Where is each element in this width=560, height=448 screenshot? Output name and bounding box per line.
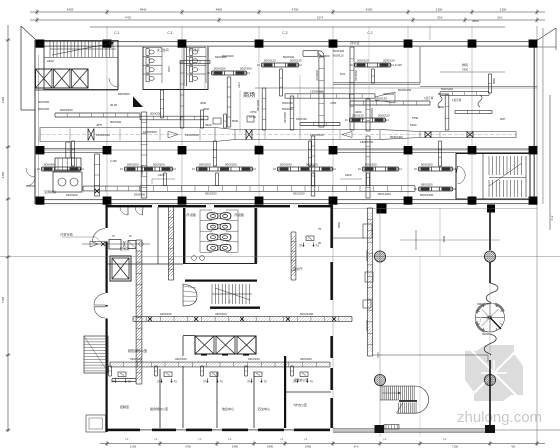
door black triangle: [133, 97, 143, 108]
svg-text:C-1: C-1: [114, 31, 119, 35]
lift lobby walls: [182, 336, 184, 356]
svg-text:4+0: 4+0: [354, 445, 359, 448]
upper taper duct: [375, 92, 395, 103]
riser duct x447: [444, 95, 446, 130]
main supply trunk wide section: [40, 128, 516, 142]
svg-text:500X200: 500X200: [282, 107, 293, 111]
mid horizontal wall right rooms: [285, 391, 331, 393]
hall grid line x380: [379, 208, 381, 437]
svg-text:4*02: 4*02: [125, 16, 132, 20]
branch risers above trunk: [199, 110, 201, 128]
svg-text:2150: 2150: [500, 8, 507, 12]
svg-text:70: 70: [264, 380, 268, 384]
svg-text:21K: 21K: [437, 16, 442, 20]
svg-text:(节点图): (节点图): [234, 213, 244, 217]
svg-text:320X160: 320X160: [175, 357, 187, 361]
svg-text:500X1200: 500X1200: [300, 312, 314, 316]
right grid line C-2: [549, 95, 551, 230]
lift lobby lower: [195, 336, 214, 354]
svg-text:500X200: 500X200: [421, 162, 433, 166]
riser x292: [289, 96, 291, 130]
pump cluster top-left of lower block: [82, 243, 150, 245]
machine room wall: [117, 40, 119, 90]
stair bottom-mid lower flight: [398, 403, 400, 414]
svg-text:500X200: 500X200: [214, 66, 226, 70]
break squiggle below spiral: [482, 334, 496, 355]
svg-text:500X200: 500X200: [127, 162, 139, 166]
svg-text:(-1: (-1: [125, 437, 129, 441]
svg-text:560X250: 560X250: [293, 192, 305, 196]
svg-text:600X400: 600X400: [333, 49, 345, 53]
svg-text:3750: 3750: [237, 82, 241, 88]
diffuser cluster E: [419, 166, 452, 168]
svg-text:520X200: 520X200: [130, 357, 142, 361]
hall connect line right: [373, 354, 488, 356]
svg-text:5000: 5000: [442, 236, 446, 243]
bottom dimension line: [100, 443, 545, 445]
svg-text:2500: 2500: [492, 78, 496, 84]
riser duct lower x293: [290, 232, 292, 280]
svg-text:C-1: C-1: [167, 31, 172, 35]
svg-text:600/1500: 600/1500: [60, 108, 73, 112]
svg-text:200X120: 200X120: [283, 112, 287, 123]
riser x262 from WC: [261, 88, 263, 130]
svg-text:500X200: 500X200: [153, 162, 165, 166]
svg-text:5000X400: 5000X400: [390, 135, 403, 139]
stair lower-mid walls: [185, 280, 257, 282]
upper duct run B: [440, 91, 489, 93]
svg-text:250X120: 250X120: [375, 97, 387, 101]
svg-text:办公堂: 办公堂: [350, 40, 360, 45]
columns row C: [36, 197, 45, 205]
outside step left-bottom: [86, 415, 106, 432]
svg-text:2200: 2200: [47, 59, 54, 63]
left bottom dim short: [140, 419, 180, 421]
svg-text:4800: 4800: [216, 8, 223, 12]
columns row A: [36, 40, 45, 48]
spiral stair thick spoke: [490, 318, 501, 330]
svg-text:排风: 排风: [462, 62, 468, 67]
toilet room lower walls: [183, 208, 185, 264]
upper duct run A: [350, 100, 430, 102]
landing line: [525, 156, 527, 197]
svg-text:70: 70: [310, 380, 314, 384]
svg-text:7150: 7150: [452, 445, 459, 448]
svg-text:630X400: 630X400: [66, 193, 78, 197]
svg-text:500X400: 500X400: [110, 120, 122, 124]
svg-text:600X400: 600X400: [256, 100, 260, 111]
svg-text:5250: 5250: [410, 123, 417, 127]
svg-text:320X160: 320X160: [215, 312, 227, 316]
fan coil upper rooms: [306, 236, 314, 241]
bottom thin continuation: [495, 429, 560, 431]
svg-text:860X500: 860X500: [118, 92, 130, 96]
svg-text:250X120: 250X120: [354, 70, 358, 81]
stair treads right upper flight: [488, 156, 490, 175]
svg-text:21*4: 21*4: [317, 16, 324, 20]
lower block bottom wall: [107, 429, 140, 432]
misc leader lines upper: [299, 75, 301, 133]
svg-text:500X200: 500X200: [38, 107, 50, 111]
toilet stalls A: [146, 49, 149, 56]
svg-text:4600: 4600: [205, 123, 212, 127]
svg-text:(-1: (-1: [304, 437, 308, 441]
elbow duct top mid: [303, 50, 318, 52]
spiral stair arrow: [482, 316, 489, 320]
top-left corner chamfer: [21, 26, 36, 40]
lower duct drops: [163, 173, 165, 186]
svg-text:2400: 2400: [232, 445, 239, 448]
AHU riser duct x97: [93, 154, 95, 196]
svg-text:500X120: 500X120: [290, 58, 302, 62]
fan coil mid room duct: [112, 378, 136, 380]
duct y124 segment: [300, 122, 340, 124]
diffuser cluster A: [125, 166, 172, 168]
room wall x158-182: [157, 207, 159, 264]
partition y83.5 right: [333, 82, 420, 84]
lower corridor duct y364: [110, 361, 330, 363]
diffuser cluster B: [197, 166, 252, 168]
stair lower-mid curve: [183, 284, 197, 306]
svg-text:36: 36: [318, 241, 322, 245]
svg-text:(-1: (-1: [280, 437, 284, 441]
svg-text:1250X500: 1250X500: [310, 133, 324, 137]
diffuser cluster I top right: [355, 62, 390, 64]
svg-text:2150: 2150: [436, 8, 443, 12]
trunk centreline: [40, 134, 516, 136]
svg-text:560X200: 560X200: [421, 182, 433, 186]
upper duct run C: [55, 112, 140, 114]
svg-text:21K: 21K: [497, 16, 502, 20]
stair arrow lower: [215, 288, 250, 300]
svg-text:控制室: 控制室: [120, 404, 129, 409]
upper partition right: [419, 47, 421, 84]
svg-text:70: 70: [174, 380, 178, 384]
svg-text:500X200: 500X200: [199, 162, 211, 166]
svg-text:3*00: 3*00: [185, 445, 191, 448]
hall column below wall x381: [377, 204, 387, 214]
right exterior wall: [534, 40, 535, 204]
svg-text:600X320: 600X320: [282, 101, 293, 105]
svg-text:女卫生间: 女卫生间: [157, 47, 169, 52]
stair arrow: [52, 43, 112, 55]
svg-text:630X400: 630X400: [365, 250, 369, 262]
hall column circles: [374, 251, 385, 262]
duct from WC: [180, 59, 210, 61]
column below stairwell: [487, 205, 495, 213]
lower block top wall: [107, 205, 152, 207]
top-right corner leaders: [533, 28, 556, 43]
svg-text:(空调*水管): (空调*水管): [60, 233, 73, 237]
svg-text:*训*办公室: *训*办公室: [293, 402, 307, 407]
diffuser cluster G left: [42, 166, 80, 168]
flex duct wavy A: [438, 96, 442, 108]
svg-text:(-1: (-1: [154, 437, 158, 441]
svg-text:560X320: 560X320: [205, 192, 217, 196]
top dimension line 1: [30, 11, 545, 13]
svg-text:75: 75: [318, 227, 322, 231]
svg-text:4200: 4200: [355, 110, 362, 114]
lift shafts top-left: [36, 69, 53, 88]
svg-text:(节点图): (节点图): [186, 213, 196, 217]
svg-text:46.00: 46.00: [110, 103, 117, 107]
stairwell walls right: [456, 154, 530, 200]
svg-text:1600X500: 1600X500: [143, 130, 157, 134]
corridor duct drops y317: [148, 317, 152, 321]
stair door: [458, 166, 466, 184]
column riser below spiral: [489, 360, 491, 425]
riser duct lower x172: [167, 207, 169, 280]
urinal wall: [256, 208, 258, 263]
riser x352: [349, 47, 351, 130]
bottom wall of upper block: [35, 199, 537, 200]
svg-text:500X1250: 500X1250: [420, 193, 434, 197]
svg-text:4700: 4700: [292, 8, 299, 12]
room dividers bottom: [159, 369, 161, 428]
left dimension line: [7, 25, 9, 432]
hall north edge line: [333, 208, 537, 210]
svg-text:5700: 5700: [255, 144, 262, 148]
hall grid line x490 upper thick: [489, 208, 491, 250]
branch risers: [70, 141, 72, 166]
svg-text:37: 37: [247, 380, 251, 384]
svg-text:1600X500: 1600X500: [185, 133, 199, 137]
small eq boxes y120: [213, 118, 221, 124]
WC sinks lower: [192, 256, 197, 261]
stair bottom-mid upper flight: [380, 385, 415, 387]
svg-text:4842: 4842: [140, 8, 147, 12]
svg-text:2450: 2450: [1, 96, 5, 103]
svg-text:2500: 2500: [472, 19, 479, 23]
left wall doors lower: [105, 293, 108, 305]
svg-text:3425: 3425: [67, 8, 74, 12]
stair treads top-left: [49, 41, 51, 57]
svg-text:260X200: 260X200: [383, 92, 395, 96]
long lower duct y188: [140, 185, 415, 187]
top dimension line 3: [90, 26, 505, 28]
AHU discharge duct: [83, 185, 140, 187]
duct run y96 mid: [285, 93, 375, 95]
bottom duct equipment: [384, 425, 399, 430]
svg-text:1250X500: 1250X500: [310, 90, 324, 94]
partition y87 right: [420, 86, 537, 88]
svg-text:500X200: 500X200: [441, 87, 453, 91]
svg-text:5000X400: 5000X400: [398, 88, 412, 92]
svg-text:500X120: 500X120: [264, 58, 276, 62]
outside stair left: [84, 336, 108, 373]
fan coils bottom rooms: [118, 372, 126, 377]
svg-text:600X120: 600X120: [333, 54, 344, 58]
svg-text:630X400: 630X400: [134, 193, 146, 197]
stair lower-mid treads: [211, 284, 213, 304]
drop duct x281: [279, 69, 281, 96]
stairwell walls top-left: [44, 41, 118, 90]
2500 drop right: [487, 74, 489, 93]
svg-text:70: 70: [220, 380, 224, 384]
svg-text:C-2: C-2: [282, 31, 287, 35]
annex bottom line: [21, 109, 35, 111]
svg-text:信息中心: 信息中心: [222, 406, 234, 411]
toilet suite walls: [142, 47, 144, 90]
bottom wall black squares: [375, 425, 385, 433]
grid line through spiral: [489, 283, 491, 352]
hall connector y238: [333, 237, 364, 239]
stair arrow right: [489, 163, 522, 186]
bottom duct band: [333, 429, 487, 433]
lower corridor duct y317: [133, 316, 352, 318]
duct y112 right stub: [455, 109, 492, 111]
diffuser cluster J: [262, 62, 298, 64]
break squiggle above spiral: [477, 283, 498, 304]
svg-text:500X200: 500X200: [225, 162, 237, 166]
svg-text:500X200: 500X200: [306, 162, 318, 166]
lower block left wall: [106, 204, 108, 432]
svg-text:200X120: 200X120: [315, 70, 319, 81]
svg-text:37: 37: [203, 380, 207, 384]
lift shaft upper-left of lower block: [112, 258, 129, 279]
riser duct lower x139: [135, 240, 137, 384]
svg-text:2400: 2400: [167, 66, 171, 73]
diffuser cluster C: [278, 166, 332, 168]
svg-text:47:50: 47:50: [249, 115, 256, 119]
stair treads right lower flight: [488, 180, 490, 197]
svg-text:组合绿办公室: 组合绿办公室: [150, 406, 168, 411]
svg-text:4600: 4600: [38, 42, 45, 46]
svg-text:500X250: 500X250: [150, 112, 162, 116]
svg-text:500X200: 500X200: [365, 162, 377, 166]
svg-text:500X200: 500X200: [240, 66, 252, 70]
trunk flow arrows: [168, 131, 178, 138]
svg-text:320X160: 320X160: [160, 312, 172, 316]
AHU left: [55, 158, 81, 170]
svg-text:500X250: 500X250: [38, 100, 50, 104]
svg-text:600X320: 600X320: [283, 55, 295, 59]
svg-text:630X400: 630X400: [370, 108, 374, 119]
svg-text:C-2: C-2: [367, 31, 372, 35]
svg-text:320X160: 320X160: [300, 357, 312, 361]
stair bottom-mid D arc: [397, 386, 429, 413]
diffuser cluster D: [363, 166, 398, 168]
top exterior wall: [35, 41, 537, 42]
svg-text:2+00: 2+00: [130, 445, 137, 448]
svg-text:500X200: 500X200: [280, 162, 292, 166]
duct run y118 left: [140, 115, 208, 117]
svg-text:2:125: 2:125: [110, 159, 117, 163]
toilet fixtures lower: [207, 213, 218, 220]
svg-text:200X120: 200X120: [357, 58, 369, 62]
svg-text:8:94: 8:94: [340, 72, 346, 76]
svg-text:(-1: (-1: [198, 437, 202, 441]
svg-text:(-1: (-1: [443, 437, 447, 441]
AHU connection: [65, 142, 67, 158]
diffuser cluster F lower right: [419, 186, 452, 188]
spiral stair: [476, 303, 505, 332]
svg-text:500X200: 500X200: [438, 92, 450, 96]
svg-text:500X400: 500X400: [44, 162, 56, 166]
doors in lower north wall: [120, 208, 128, 215]
svg-text:5000: 5000: [232, 119, 239, 123]
svg-text:1800X500: 1800X500: [360, 140, 374, 144]
svg-text:(-1: (-1: [228, 437, 232, 441]
svg-text:600X400: 600X400: [222, 54, 234, 58]
hall branch right upper: [415, 230, 417, 250]
svg-text:石全中心: 石全中心: [258, 406, 270, 411]
svg-text:培训办公室: 培训办公室: [294, 377, 309, 382]
svg-text:630X400: 630X400: [365, 320, 369, 332]
svg-text:空调机房: 空调机房: [44, 189, 56, 194]
svg-text:C-2: C-2: [550, 215, 554, 220]
svg-text:(-1: (-1: [383, 437, 387, 441]
leader 5000: [439, 208, 441, 256]
svg-text:1变空调: 1变空调: [424, 96, 434, 100]
stair arrow bottom: [382, 392, 400, 394]
drop duct x373: [371, 69, 373, 83]
svg-text:4650: 4650: [200, 101, 207, 105]
columns row B: [36, 146, 45, 154]
grid line B: [106, 26, 108, 204]
lower west wall door gap: [105, 228, 108, 242]
hall grid line y256: [0, 256, 560, 258]
svg-text:180X120: 180X120: [296, 117, 307, 121]
svg-text:2500: 2500: [438, 105, 444, 109]
svg-text:2:125: 2:125: [395, 63, 402, 67]
riser x160: [159, 90, 161, 118]
duct y88 horizontals right: [255, 87, 350, 89]
middle grid wall: [35, 149, 537, 151]
hall grid line x420: [419, 256, 421, 437]
svg-text:2400: 2400: [345, 173, 352, 177]
svg-text:*50: *50: [511, 445, 516, 448]
drop duct x229: [226, 77, 228, 127]
svg-text:7150: 7150: [1, 296, 5, 303]
drop duct x321: [318, 57, 320, 127]
svg-text:4200: 4200: [366, 8, 373, 12]
svg-text:7850: 7850: [462, 68, 469, 72]
left exterior wall: [34, 40, 35, 204]
svg-text:4750: 4750: [330, 101, 337, 105]
svg-text:1变空调: 1变空调: [452, 98, 462, 102]
svg-text:zhulong.com: zhulong.com: [457, 409, 542, 426]
svg-text:2400: 2400: [267, 445, 274, 448]
svg-text:200X120: 200X120: [383, 58, 395, 62]
svg-text:925*: 925*: [500, 117, 506, 121]
hall duct boxes: [363, 224, 372, 238]
lower block right wall: [330, 204, 333, 248]
door to stair corridor: [109, 78, 118, 87]
svg-text:46*5: 46*5: [96, 123, 102, 127]
top dimension line 2: [30, 19, 545, 21]
stair bottom-mid landing: [399, 400, 417, 402]
left wall door: [26, 168, 35, 177]
riser duct x368 upper: [365, 99, 367, 131]
svg-text:商场: 商场: [243, 91, 255, 99]
svg-text:2400: 2400: [305, 445, 312, 448]
svg-text:500X1200: 500X1200: [378, 192, 391, 196]
flex duct wavy B: [478, 95, 482, 107]
svg-text:5250: 5250: [358, 117, 365, 121]
svg-text:600X400: 600X400: [318, 54, 330, 58]
svg-text:4750: 4750: [250, 110, 257, 114]
toilet stalls B: [190, 49, 193, 56]
svg-text:上: 上: [228, 299, 231, 303]
hall riser duct x370: [366, 208, 368, 356]
watermark zhulong logo: [465, 345, 523, 401]
svg-text:1600X500: 1600X500: [96, 133, 110, 137]
svg-text:4600: 4600: [203, 107, 210, 111]
svg-text:320X160: 320X160: [248, 357, 260, 361]
diffuser cluster K y120: [350, 117, 385, 119]
svg-text:2450: 2450: [1, 171, 5, 178]
